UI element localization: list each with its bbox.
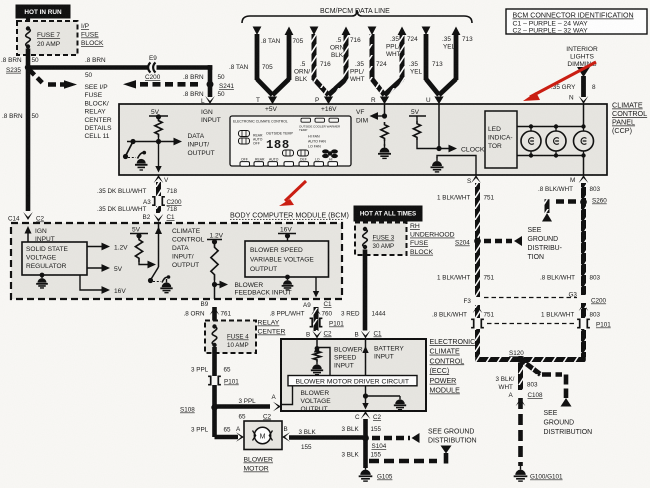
CCP pin R terminal xyxy=(371,96,389,104)
wire S235 to E9 corner (.8 BRN) xyxy=(28,65,210,70)
ECC pin B terminal (C2) xyxy=(306,331,332,339)
electronic climate control (ECC) power module box xyxy=(281,339,426,411)
ground (clock) xyxy=(431,158,444,172)
note: see ground distribution (S104) xyxy=(428,429,477,445)
wire S260 to G3 (.8 BLK/WHT 803) xyxy=(580,199,587,295)
wire to pin N (.35 GRY 8) xyxy=(581,76,586,97)
BCM pin B9 terminal xyxy=(201,301,220,315)
fuse F7 symbol xyxy=(26,26,31,48)
label .35 DK BLU/WHT 718 (upper) xyxy=(97,188,178,195)
label .8 BLK/WHT 751 (lower) xyxy=(432,312,495,319)
blower speed input resistor xyxy=(313,350,320,362)
wire .35 DK BLU/WHT 718 (upper) xyxy=(156,182,161,196)
label 3 BLK 155 (lower) xyxy=(342,452,382,459)
splice S120 xyxy=(509,350,524,363)
CCP pin S terminal xyxy=(467,175,481,185)
ground (blower speed output) xyxy=(282,275,294,290)
label .5 ORN/BLK 716 (right leg) xyxy=(330,37,361,59)
indicator bulb 3 xyxy=(574,127,594,156)
label .8 PPL/WHT 760 xyxy=(270,311,333,318)
brace over data lines xyxy=(242,10,472,23)
CCP pin L terminal xyxy=(201,96,215,105)
blower speed variable voltage output U-BCM xyxy=(245,241,329,277)
feed arrow into N wire xyxy=(577,67,590,77)
BCM/PCM data line label xyxy=(320,8,390,15)
wire ECC pin C to S104 (3 BLK 155) xyxy=(363,419,368,438)
blower speed input wire xyxy=(314,339,320,353)
CCP 5V supply (data) xyxy=(149,109,168,119)
CCP IGN INPUT label xyxy=(201,109,221,124)
wire from HOT IN RUN to fuse 7 xyxy=(26,18,30,22)
label .8 ORN 761 xyxy=(184,311,232,318)
ECC blower speed input label xyxy=(334,347,363,370)
red annotation arrow (BCM) xyxy=(279,181,306,206)
ground (BCM data switch) xyxy=(160,275,172,292)
dashed wire C108 to G100/G101 xyxy=(518,398,523,466)
data line wire pair to pin P (.5 ORN/BLK 716) xyxy=(310,27,351,96)
wire pin N to bulb rail xyxy=(583,104,585,127)
wire CCP pin M to S260 (.8 BLK/WHT 803) xyxy=(581,183,586,202)
ground (voltage regulator) xyxy=(36,273,48,288)
connector C200 (F3-G3) xyxy=(484,298,607,305)
label .8 BLK/WHT 803 (mid) xyxy=(540,275,601,282)
ECC pin C terminal (C2) xyxy=(355,411,382,421)
bulb top rail xyxy=(517,124,586,128)
CCP pin P terminal xyxy=(315,96,333,104)
battery input wire xyxy=(362,339,368,376)
wire .8 PPL/WHT 760 xyxy=(314,307,319,331)
wire label .8 BRN (top run) xyxy=(85,57,106,79)
blower feedback resistor xyxy=(211,242,218,280)
body computer module (BCM) box xyxy=(11,223,342,299)
note: see ground distribution (S260/S204) xyxy=(528,227,562,261)
BCM pin C14 terminal (C2) xyxy=(8,212,45,223)
driver output wire xyxy=(362,386,368,410)
connector C200 (A3) xyxy=(143,197,182,206)
label 3 BLK 155 (motor) xyxy=(299,429,317,451)
regulator 5V output xyxy=(87,264,123,273)
connector P101 (blower feed) xyxy=(208,376,239,385)
blower feedback arrow xyxy=(212,280,228,288)
BCM connector identification note box xyxy=(506,9,647,35)
wire speed input to driver xyxy=(317,348,330,376)
label 1 BLK/WHT 803 (lower) xyxy=(541,312,601,319)
wire fuse3 to ECC pin B (3 RED 1444) xyxy=(363,250,368,331)
CCP pin N terminal xyxy=(569,95,588,105)
blower motor label xyxy=(244,457,274,473)
bulb bottom rail xyxy=(517,153,586,157)
label .8 BLK/WHT 803 (upper) xyxy=(538,186,601,193)
wire .35 DK BLU/WHT 718 (lower) xyxy=(156,206,161,213)
ECC pin B terminal (C1) xyxy=(355,331,383,339)
CCP pin M terminal xyxy=(570,175,588,184)
blower speed output arrow to A9 xyxy=(313,277,319,298)
fuse F3 value label xyxy=(373,235,395,251)
clock ground return wire xyxy=(437,156,476,176)
CCP data line to pin V xyxy=(155,137,161,173)
wire fuse7 to S235 xyxy=(26,49,31,68)
blower motor pin B terminal xyxy=(282,426,290,442)
connector C200 label (top) xyxy=(145,74,161,81)
wire corner to S241 xyxy=(208,65,213,84)
fuse F3 symbol xyxy=(363,227,368,249)
blower motor driver circuit box xyxy=(288,376,417,386)
ECC blower voltage output label xyxy=(301,390,332,413)
hot in run feed box xyxy=(16,5,70,18)
label .8 TAN 705 (left leg) xyxy=(229,64,273,71)
BCM data switch xyxy=(148,267,161,283)
blower motor symbol xyxy=(253,427,273,443)
label 3 BLK 155 (upper) xyxy=(342,426,382,433)
indicator bulb 1 xyxy=(521,127,541,156)
blower voltage output wire to pin A xyxy=(281,386,293,405)
VF DIM arrow xyxy=(356,109,385,125)
dashed wire S260 to ground distribution xyxy=(542,199,577,221)
LED indicator module U-CCP xyxy=(485,111,517,168)
wire P101 to S108 xyxy=(212,385,217,437)
relay center label xyxy=(258,320,286,336)
wire F3 to P101 (.8 BLK/WHT 751) xyxy=(475,305,480,318)
relay center fuse 4 box xyxy=(205,321,256,354)
wire bulb rail to pin M xyxy=(583,156,585,176)
regulator 1.2V output xyxy=(87,243,128,252)
BCM IGN input arrow xyxy=(25,226,55,243)
BCM pin A9 terminal (C1) xyxy=(303,301,332,315)
CCP data pull-up resistor xyxy=(155,118,162,137)
BCM climate control data label xyxy=(172,228,205,269)
wire .8 ORN 761 xyxy=(212,307,217,321)
RH underhood fuse block box (fuse 3) xyxy=(355,223,407,256)
wire feedback to pin B9 xyxy=(214,285,216,300)
BCM data pull-up resistor xyxy=(135,236,142,262)
connector P101 (blower speed signal) xyxy=(310,318,345,327)
climate control panel (CCP) box xyxy=(119,104,607,175)
dashed arrow S104 to ground distribution xyxy=(372,433,420,443)
label 3 BLK/WHT 803 xyxy=(496,376,539,391)
ground (blower speed input) xyxy=(311,361,323,375)
wire S104 to G105 (3 BLK 155) xyxy=(363,438,368,468)
label .8 BRN 50 (left mid) xyxy=(2,113,39,120)
ECC battery input label xyxy=(374,346,404,361)
CCP data input/output arrow xyxy=(127,138,182,146)
driver ground branch xyxy=(366,395,401,397)
label .35 YEL 713 (right leg) xyxy=(442,36,473,51)
BCM 16V supply xyxy=(278,227,296,242)
ground (CCP data) xyxy=(135,151,148,170)
ECC display panel graphic xyxy=(230,116,351,166)
hot at all times feed box xyxy=(354,206,422,221)
BCM pin B2 terminal (C1) xyxy=(143,214,176,222)
ECC pin A terminal xyxy=(272,394,282,411)
splice S235 xyxy=(6,64,31,74)
label .5 ORN/BLK 716 (left leg) xyxy=(294,61,331,83)
BCM 5V supply (data) xyxy=(130,227,148,239)
splice S108 xyxy=(180,404,218,413)
label .35 PPL/WHT 724 (right leg) xyxy=(386,36,418,58)
I/P fuse block label xyxy=(81,23,104,47)
splice S204 xyxy=(455,238,481,247)
fuse F7 value label xyxy=(37,32,61,48)
CCP DATA INPUT/OUTPUT label xyxy=(188,133,215,157)
label 1 BLK/WHT 751 (upper) xyxy=(437,195,495,202)
label 3 PPL 65 (above P101) xyxy=(191,367,231,374)
note: see I/P fuse block details xyxy=(85,84,113,140)
splice S260 xyxy=(580,198,607,206)
connector pin F3 xyxy=(464,298,483,313)
clock pull-up resistor xyxy=(413,121,420,140)
note: see ground distribution (S120) xyxy=(544,410,593,436)
fuse F4 value label xyxy=(227,334,249,350)
wire pin R to VF DIM node xyxy=(382,104,387,119)
label 3 PPL 65 C2 (to ECC) xyxy=(239,398,272,421)
data line wire pair to pin R (.35 PPL/WHT 724) xyxy=(368,27,407,96)
CCP pin T terminal xyxy=(256,96,277,104)
CCP data switch to ground xyxy=(123,142,136,160)
interior lights dimming source note xyxy=(566,46,598,68)
dashed arrow S204 to ground distribution xyxy=(484,236,522,246)
wire motor B to S104 (3 BLK 155) xyxy=(289,435,363,440)
BCM data arrow to B2 wire xyxy=(139,261,156,269)
wire labels .8 BRN 50 at S241 xyxy=(183,74,225,81)
connector P101 (grounds) xyxy=(471,319,611,328)
dashed arrow from S241 to C200 xyxy=(123,80,200,88)
wire CCP pin S to S204 (1 BLK/WHT 751) xyxy=(475,183,480,241)
ECC power module label xyxy=(430,338,476,395)
label 3 RED 1444 xyxy=(341,311,386,318)
BCM blower feedback label xyxy=(235,282,292,297)
wire S204 to F3 (1 BLK/WHT 751) xyxy=(474,238,481,297)
indicator bulb 2 xyxy=(546,127,566,156)
wire pin U to clock junction xyxy=(436,104,441,151)
red annotation arrow (CCP) xyxy=(523,62,596,101)
splice S241 xyxy=(207,81,235,90)
clock wire to junction xyxy=(417,140,452,149)
wire S120 to C108 (3 BLK/WHT 803) xyxy=(518,360,523,391)
label .35 YEL 713 (left leg) xyxy=(409,61,443,76)
CCP 5V supply (clock) xyxy=(409,109,426,121)
fuse F4 symbol xyxy=(212,324,217,347)
wire pin B2 into BCM xyxy=(155,222,162,267)
label .8 TAN 705 (right leg) xyxy=(261,38,304,45)
wire S241 to CCP pin L xyxy=(208,84,213,97)
dashed arrow from S235 to SEE I/P note xyxy=(30,70,78,89)
wire S235 down to BCM (.8 BRN) xyxy=(26,68,31,212)
BCM label xyxy=(230,211,349,220)
CCP pin U terminal xyxy=(426,96,444,104)
climate control panel (CCP) label xyxy=(612,101,647,136)
CLOCK output arrow xyxy=(449,145,485,154)
fuse block I/P dashed box xyxy=(17,21,78,55)
splice S104 xyxy=(362,435,387,450)
wire G3 to P101 (1 BLK/WHT 803) xyxy=(581,303,586,318)
data line wire pair to pin U (.35 YEL 713) xyxy=(422,27,461,96)
wire to fuse 3 xyxy=(363,221,367,226)
VF dimming resistor xyxy=(381,122,388,141)
blower motor pin A terminal xyxy=(236,426,244,442)
wire P101 left leg to S120 xyxy=(475,329,520,360)
label 1 BLK/WHT 751 (mid) xyxy=(437,275,495,282)
blower motor M1 box xyxy=(244,421,282,450)
wire label .8 BRN 50 (left top) xyxy=(1,57,39,64)
wire fuse4 to P101 (3 PPL 65) xyxy=(212,347,217,376)
CCP pin V terminal xyxy=(154,175,169,184)
wire S108 down to blower motor (3 PPL 65) xyxy=(191,427,238,438)
label .35 DK BLU/WHT 718 (lower) xyxy=(97,206,178,213)
ground (ECC driver) xyxy=(394,396,406,410)
BCM 1.2V reference xyxy=(207,233,224,245)
CCP +5V pin label xyxy=(265,106,278,113)
RH underhood fuse block label xyxy=(410,223,455,256)
regulator 16V output xyxy=(80,275,126,295)
ground G100/G101 xyxy=(514,466,563,481)
data line wire pair to pin T (.8 TAN 705) xyxy=(253,27,294,96)
dashed arrow S120 to ground distribution xyxy=(517,356,572,407)
solid state voltage regulator U-BCM xyxy=(22,242,87,275)
label .35 PPL/WHT 724 (left leg) xyxy=(350,61,387,83)
connector C108 pin A xyxy=(509,392,544,406)
wire labels .8 BRN 50 (to L) xyxy=(183,91,225,98)
connector pin G3 xyxy=(569,292,589,312)
ground G105 xyxy=(359,466,393,481)
wire S108 to ECC pin A (3 PPL 65) xyxy=(215,404,271,409)
dashed branch to ground distribution arrow xyxy=(369,446,452,464)
label .35 GRY 8 xyxy=(551,84,596,91)
wire P101 right leg to S120 xyxy=(521,329,586,360)
CCP +16V pin label xyxy=(321,106,337,113)
in-line connector E9 xyxy=(148,55,158,73)
ground (VF DIM) xyxy=(378,141,391,158)
